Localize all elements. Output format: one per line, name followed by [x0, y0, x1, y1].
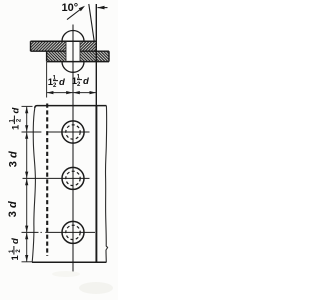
rivet bottom head (dome) [62, 62, 84, 73]
label 3d (upper, rotated) [8, 151, 20, 167]
front view: plate top edge [35, 106, 107, 108]
horizontal arrow pointing left at reference line [98, 7, 108, 9]
svg-text:3: 3 [7, 211, 19, 217]
plate interface line [31, 50, 67, 52]
arrowheads on left dimension chain [25, 107, 28, 114]
rivet shank sides [65, 41, 67, 61]
svg-text:d: d [10, 238, 21, 244]
front view: left break line (wavy) [32, 108, 35, 262]
svg-text:1: 1 [11, 124, 22, 130]
faint scan smudge bottom right [79, 282, 113, 294]
vertical reference line / plate right edge [95, 4, 97, 106]
bottom plate right end [108, 51, 110, 61]
bottom plate bottom edge [47, 61, 109, 63]
centerline (rivet axis, vertical) [72, 25, 74, 277]
label 3d (lower, rotated) [7, 201, 19, 217]
top plate top edge [31, 40, 97, 42]
svg-text:d: d [11, 108, 22, 114]
dimension line 1.5d + 1.5d (horizontal, below section) [46, 62, 48, 98]
svg-text:d: d [83, 76, 89, 87]
rivet 1 (front view) [22, 121, 90, 143]
svg-text:d: d [59, 77, 65, 88]
svg-text:10°: 10° [62, 2, 79, 14]
svg-text:1: 1 [10, 255, 21, 261]
bottom plate left end [46, 51, 48, 61]
label 1.5d right [72, 75, 89, 88]
front view: hidden edge of lower plate (dashed) [46, 104, 48, 257]
top plate (section, hatched) [31, 41, 67, 51]
rivet top head (dome) [62, 31, 84, 42]
front view: right break line (wavy) [105, 106, 107, 263]
rivet 3 (front view) [22, 221, 96, 243]
rivet 2 (front view) [23, 167, 90, 189]
label 1.5d (bottom, rotated) [9, 238, 22, 261]
10 degree slant line [89, 4, 94, 41]
svg-text:d: d [8, 151, 20, 158]
label 1.5d (top, rotated) [10, 108, 23, 131]
left dimension chain: extension ticks [22, 105, 33, 107]
svg-text:3: 3 [8, 161, 20, 167]
front view: plate bottom edge [32, 261, 106, 263]
left dimension line (vertical) [26, 106, 28, 261]
label 1.5d left [48, 76, 65, 89]
svg-text:d: d [7, 201, 19, 208]
10 deg leader arrow [67, 7, 84, 20]
top plate left end [30, 41, 32, 51]
bottom plate (section, hatched) [47, 51, 66, 61]
